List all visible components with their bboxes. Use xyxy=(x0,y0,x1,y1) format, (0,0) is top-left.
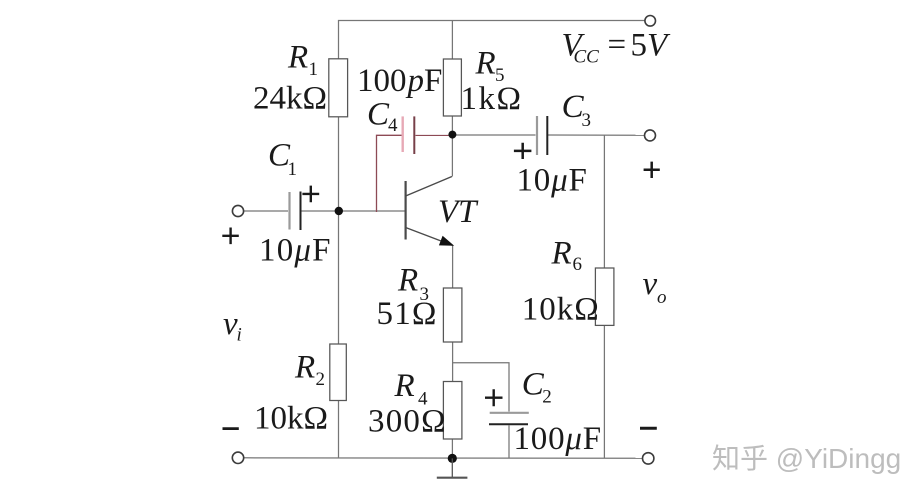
svg-text:i: i xyxy=(237,325,242,346)
svg-text:R: R xyxy=(397,263,418,299)
svg-text:2: 2 xyxy=(316,369,326,390)
svg-text:3: 3 xyxy=(582,110,592,131)
svg-text:4: 4 xyxy=(388,115,398,136)
svg-text:10kΩ: 10kΩ xyxy=(254,401,328,437)
svg-text:6: 6 xyxy=(573,254,583,275)
svg-text:o: o xyxy=(657,287,667,308)
svg-text:5: 5 xyxy=(631,27,648,63)
svg-text:V: V xyxy=(647,27,671,63)
svg-text:1: 1 xyxy=(309,59,319,80)
svg-text:1: 1 xyxy=(288,159,298,180)
svg-text:CC: CC xyxy=(574,47,600,68)
svg-text:10μF: 10μF xyxy=(259,233,332,269)
svg-text:R: R xyxy=(287,40,308,76)
svg-text:10kΩ: 10kΩ xyxy=(522,292,600,328)
svg-text:R: R xyxy=(475,46,496,82)
svg-text:100μF: 100μF xyxy=(514,421,602,457)
svg-text:v: v xyxy=(643,266,658,302)
svg-text:100pF: 100pF xyxy=(357,63,442,99)
svg-text:R: R xyxy=(394,368,415,404)
svg-text:10μF: 10μF xyxy=(517,163,588,199)
svg-text:51Ω: 51Ω xyxy=(377,296,438,332)
svg-text:知乎 @YiDingg: 知乎 @YiDingg xyxy=(712,443,901,474)
svg-text:2: 2 xyxy=(542,387,552,408)
svg-text:1kΩ: 1kΩ xyxy=(461,81,523,117)
svg-text:R: R xyxy=(551,236,572,272)
svg-text:C: C xyxy=(367,97,390,133)
svg-text:R: R xyxy=(294,350,315,386)
svg-text:=: = xyxy=(608,27,627,63)
svg-text:300Ω: 300Ω xyxy=(368,404,447,440)
svg-text:24kΩ: 24kΩ xyxy=(253,81,327,117)
svg-text:VT: VT xyxy=(438,194,479,230)
